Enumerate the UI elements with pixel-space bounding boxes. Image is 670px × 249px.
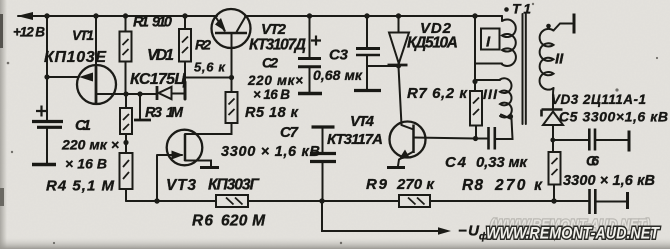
svg-text:R2: R2 bbox=[195, 37, 211, 53]
svg-text:R8: R8 bbox=[462, 177, 483, 194]
svg-text:270 к: 270 к bbox=[396, 176, 435, 193]
svg-text:R3: R3 bbox=[145, 105, 162, 121]
svg-text:КП103Е: КП103Е bbox=[44, 49, 107, 66]
svg-text:С2: С2 bbox=[262, 55, 278, 71]
svg-text:С4: С4 bbox=[445, 154, 467, 171]
svg-text:VT4: VT4 bbox=[350, 113, 375, 130]
svg-text:0,68 мк: 0,68 мк bbox=[313, 67, 363, 83]
svg-text:II: II bbox=[555, 51, 564, 68]
svg-text:+12 В: +12 В bbox=[13, 25, 45, 40]
svg-text:3300 × 1,6 кВ: 3300 × 1,6 кВ bbox=[563, 173, 655, 189]
svg-text:R1: R1 bbox=[133, 15, 149, 31]
svg-text:VT2: VT2 bbox=[261, 21, 287, 38]
svg-text:620 М: 620 М bbox=[221, 213, 266, 230]
svg-text:× 16 В: × 16 В bbox=[65, 156, 107, 172]
svg-text:WWW.REMONT-AUD.NET: WWW.REMONT-AUD.NET bbox=[486, 225, 661, 243]
svg-text:КС175Ц: КС175Ц bbox=[130, 71, 186, 88]
svg-text:VD1: VD1 bbox=[147, 47, 174, 64]
svg-text:220 мк×: 220 мк× bbox=[247, 73, 303, 88]
svg-text:3300 × 1,6 кВ: 3300 × 1,6 кВ bbox=[221, 144, 320, 160]
svg-text:R9: R9 bbox=[366, 176, 388, 193]
svg-text:С1: С1 bbox=[75, 117, 91, 134]
svg-text:R4 5,1 М: R4 5,1 М bbox=[46, 178, 115, 195]
svg-text:С3: С3 bbox=[329, 47, 349, 64]
svg-text:КД510А: КД510А bbox=[407, 35, 458, 52]
svg-text:1М: 1М bbox=[166, 105, 184, 121]
svg-text:R5 18 к: R5 18 к bbox=[245, 105, 299, 121]
svg-text:270 к: 270 к bbox=[494, 177, 543, 194]
svg-text:С7: С7 bbox=[280, 124, 299, 141]
svg-text:220 мк ×: 220 мк × bbox=[61, 137, 119, 153]
svg-text:VT3: VT3 bbox=[166, 177, 196, 194]
svg-text:−U: −U bbox=[458, 223, 480, 240]
svg-text:КТ3117А: КТ3117А bbox=[327, 131, 383, 148]
svg-text:× 16 В: × 16 В bbox=[253, 87, 290, 102]
svg-text:R7 6,2 к: R7 6,2 к bbox=[407, 85, 468, 102]
svg-text:VD3 2Ц111А-1: VD3 2Ц111А-1 bbox=[551, 92, 646, 107]
svg-text:III: III bbox=[483, 86, 498, 102]
svg-text:С5 3300×1,6 кВ: С5 3300×1,6 кВ bbox=[559, 109, 668, 125]
svg-text:R6: R6 bbox=[192, 213, 213, 230]
svg-text:5,6 к: 5,6 к bbox=[194, 60, 226, 75]
svg-text:С6: С6 bbox=[586, 153, 599, 169]
svg-text:VT1: VT1 bbox=[72, 27, 94, 43]
svg-text:КП303Г: КП303Г bbox=[208, 177, 260, 194]
svg-text:КТ3107Д: КТ3107Д bbox=[249, 37, 306, 54]
svg-text:0,33 мк: 0,33 мк bbox=[476, 154, 528, 171]
svg-text:910: 910 bbox=[152, 15, 172, 31]
